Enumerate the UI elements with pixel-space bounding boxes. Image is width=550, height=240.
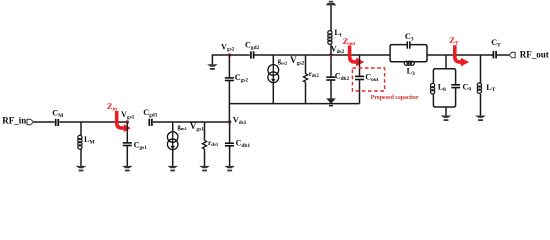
ground (current source 1): [167, 166, 178, 172]
wire C_db2 to ground triangle: [330, 81, 332, 99]
wire L_T to ground: [480, 94, 482, 116]
svg-text:Cdb2: Cdb2: [335, 71, 350, 81]
svg-text:Vds2: Vds2: [331, 45, 345, 55]
inductor L_M: [78, 135, 82, 149]
svg-text:LM: LM: [84, 135, 94, 145]
svg-text:Proposed capacitor: Proposed capacitor: [371, 95, 419, 101]
wire riser V_ds1 to stage2 rail: [228, 104, 230, 122]
svg-text:Cgd1: Cgd1: [143, 108, 158, 118]
svg-text:Vgs1: Vgs1: [121, 110, 135, 120]
svg-text:C3: C3: [405, 32, 414, 42]
wire current source 2 to bottom rail: [272, 83, 274, 104]
current source g_m2 V_gs2: [268, 65, 279, 83]
svg-text:RF_out: RF_out: [520, 50, 549, 60]
svg-text:CM: CM: [52, 109, 63, 119]
wire C_gs1 to ground: [126, 146, 128, 166]
capacitor C_db1: [225, 142, 234, 144]
wire riser L0C0: [445, 55, 447, 69]
svg-text:gm2Vgs2: gm2Vgs2: [278, 55, 305, 67]
ground (C_db1): [224, 166, 235, 172]
capacitor C_gd1: [148, 119, 150, 126]
svg-text:ZT: ZT: [449, 35, 459, 46]
ground (L_M): [76, 166, 87, 172]
node V_gs1: [126, 120, 129, 123]
svg-text:Cdb1: Cdb1: [236, 138, 251, 148]
capacitor C_3: [406, 41, 408, 48]
svg-text:Zin: Zin: [107, 101, 117, 112]
wire L_M branch: [80, 122, 82, 135]
arrow Z_out: [350, 46, 357, 63]
svg-text:RF_in: RF_in: [2, 116, 26, 126]
current source g_m1 V_gs1: [167, 132, 178, 150]
wire to current source 2: [272, 55, 274, 65]
L0 C0 box outline: [433, 69, 455, 107]
wire C_db1 to ground: [229, 147, 231, 167]
node V_ds2: [329, 53, 332, 56]
node V_gs2: [228, 53, 231, 56]
tank C3 L3 outline: [390, 45, 427, 62]
svg-text:rds1: rds1: [208, 138, 219, 148]
inductor L_T: [477, 83, 481, 94]
ground (C_gs1): [122, 166, 133, 172]
wire L_f to VDD: [330, 5, 332, 30]
wire box to ground: [445, 107, 447, 116]
wire C_gd2 to V_ds2 and tank: [255, 54, 390, 56]
inductor L_0: [431, 83, 435, 94]
VDD supply symbol: [326, 1, 337, 6]
svg-text:Vgs2: Vgs2: [221, 42, 235, 52]
svg-text:CT: CT: [491, 38, 501, 48]
wire V_gs2 to C_gs2: [228, 55, 230, 77]
capacitor C_out: [355, 75, 364, 77]
wire V_gs2 to C_gd2: [229, 54, 249, 56]
wire C_out to bottom rail: [359, 80, 361, 103]
ground (L0 C0): [441, 116, 452, 122]
wire C_M to V_gs1: [59, 121, 127, 123]
arrow Z_T: [455, 45, 462, 62]
wire r_ds1 to ground: [204, 149, 206, 166]
port RF_out: [509, 52, 515, 58]
svg-text:Cout: Cout: [365, 73, 379, 83]
svg-text:rds2: rds2: [309, 69, 320, 79]
arrow Z_in: [117, 111, 124, 128]
capacitor C_gs1: [123, 142, 132, 144]
node V_ds1: [228, 120, 231, 123]
wire to r_ds1: [204, 122, 206, 140]
capacitor C_0: [451, 84, 460, 86]
svg-text:L3: L3: [407, 67, 415, 77]
wire current source 1 to ground: [172, 150, 174, 166]
wire L_M to ground: [80, 149, 82, 166]
wire C_gd1 to V_ds1: [153, 121, 230, 123]
capacitor C_M: [55, 119, 57, 126]
ground (L_T): [475, 116, 486, 122]
capacitor C_T: [492, 51, 494, 59]
wire V_ds1 to C_db1: [229, 122, 231, 142]
port RF_in: [27, 119, 33, 125]
inductor L_3: [404, 61, 414, 65]
wire V_ds2 to L_f: [330, 44, 332, 55]
svg-text:Cgd2: Cgd2: [245, 41, 260, 51]
wire V_ds2 to C_db2: [330, 55, 332, 77]
wire C_gs2 to bottom rail: [228, 81, 230, 103]
wire tank to C_T: [427, 54, 493, 56]
wire to r_ds2: [305, 55, 307, 74]
svg-text:LT: LT: [486, 83, 495, 93]
resistor r_ds2: [303, 74, 307, 83]
ground (r_ds1): [199, 166, 210, 172]
wire port to C_M: [33, 121, 54, 123]
svg-text:Zout: Zout: [343, 36, 356, 47]
svg-text:L0: L0: [438, 83, 446, 93]
capacitor C_gs2: [225, 77, 234, 79]
wire C_T to port: [497, 54, 509, 56]
svg-text:Vds1: Vds1: [233, 115, 247, 125]
inductor L_f: [328, 31, 332, 45]
svg-text:Lf: Lf: [334, 28, 341, 38]
capacitor C_db2: [326, 76, 335, 78]
dashed box proposed capacitor: [352, 68, 384, 91]
wire to current source 1: [172, 122, 174, 132]
svg-text:Cgs1: Cgs1: [134, 141, 148, 151]
resistor r_ds1: [202, 140, 206, 149]
wire C_out riser: [359, 55, 361, 76]
wire r_ds2 to bottom rail: [305, 82, 307, 103]
wire V_gs1 to C_gs1: [126, 122, 128, 142]
capacitor C_gd2: [250, 51, 252, 58]
wire L_T riser: [480, 55, 482, 83]
svg-text:C0: C0: [463, 82, 472, 92]
wire V_gs2 to left ground: [212, 55, 229, 64]
ground triangle (C_db2): [326, 98, 336, 104]
svg-text:Cgs2: Cgs2: [235, 73, 249, 83]
wire stage2 bottom rail: [229, 103, 359, 105]
ground (V_gs2): [207, 64, 218, 70]
